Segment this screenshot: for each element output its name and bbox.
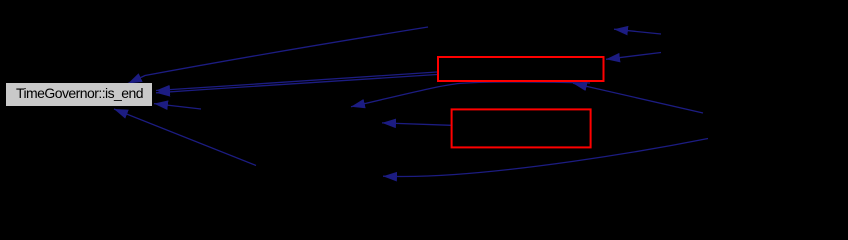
wire: edge E1 from hidden caller node to TimeGovernor::is_end (top) <box>114 27 708 176</box>
wire: edge E11 long swoop from hidden node N1 to hidden node bottom left <box>383 139 708 177</box>
wire: edge E10 from red node 2 left edge to hidden node <box>382 123 451 125</box>
wire: edge E4 diagonal from hidden node to is_end bottom <box>114 109 256 166</box>
svg-text:TimeGovernor::is_end: TimeGovernor::is_end <box>16 85 143 101</box>
wire: edge E2a from red node 1 left edge to is_end <box>156 72 437 91</box>
node: TimeGovernor::is_end (current function, grey) <box>6 83 152 106</box>
wire: edge E5 short edge top right between hidden nodes <box>614 29 661 34</box>
wire: edge E2b parallel edge into is_end <box>156 75 437 93</box>
node: truncated red caller node 1 <box>438 57 604 81</box>
wire: edge E7 from hidden node into red node 1 right edge <box>606 53 661 60</box>
wire: edge E3 short edge from hidden node into is_end right side <box>154 104 201 109</box>
node: truncated red caller node 2 <box>452 109 591 147</box>
wire: edge E8 from hidden node N1 into red node 1 bottom edge <box>573 83 703 113</box>
wire: edge E9 curving under red node 1 to hidden node at left <box>351 82 590 107</box>
